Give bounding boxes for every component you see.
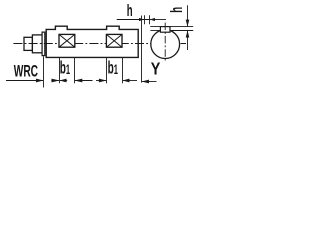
key top extension right (150, 26, 193, 28)
b1 (keyway1) right arrow (points left at 74.8, tail to gap) (75, 79, 93, 83)
tip cylinder A (24, 37, 32, 50)
middle dimension arrow (points right at 106.4) (96, 79, 107, 83)
top h left-pointing arrow (tip 148.6) (150, 18, 166, 21)
extension line h (short right) (149, 15, 151, 24)
extension line h/Y (long) (141, 16, 143, 83)
WRC dimension line + arrow (tip at 43.5) (6, 79, 44, 83)
key in keyway (end view) (160, 27, 170, 33)
b1 (keyway1) left arrow (points right at 59) (51, 79, 59, 83)
svg-text:WRC: WRC (14, 61, 38, 80)
OD tangent / extension right (170, 30, 193, 32)
top h dim line + right-pointing arrow (tip 143.8) (117, 18, 150, 21)
keyway 2 cross (106, 34, 122, 47)
keyway 1 cross (59, 34, 75, 47)
retaining ring (42, 32, 45, 56)
centerline (side view axis + end view horizontal) (13, 43, 186, 45)
extension line h (short right) (144, 15, 146, 24)
svg-text:b1: b1 (60, 59, 70, 79)
extension line keyway1 right (74, 58, 76, 83)
end view vertical centerline (164, 23, 166, 63)
tip step B (32, 35, 42, 53)
shaft body (side view outline) (46, 26, 138, 57)
svg-text:Y: Y (151, 60, 161, 79)
svg-text:h: h (127, 1, 133, 19)
vertical h dim: up arrow (186, 31, 190, 51)
end view circle (151, 30, 180, 59)
extension line WRC (ring) (43, 56, 45, 87)
b1 (keyway2) right arrow (points left at 122) (123, 79, 138, 83)
svg-text:b1: b1 (108, 59, 118, 79)
extension line keyway2 left (106, 58, 108, 83)
extension line keyway2 right (122, 58, 124, 83)
WRC right arrow (points left at ext 59) (60, 79, 68, 83)
Y arrow (points left at 143.8) (142, 80, 157, 84)
extension line keyway1 left (59, 58, 61, 83)
keyway 2 box (106, 34, 122, 47)
keyway 1 box (59, 34, 75, 47)
vertical h dim: down arrow (186, 5, 190, 26)
svg-text:h: h (167, 7, 185, 13)
OD tangent stub left (150, 30, 160, 32)
